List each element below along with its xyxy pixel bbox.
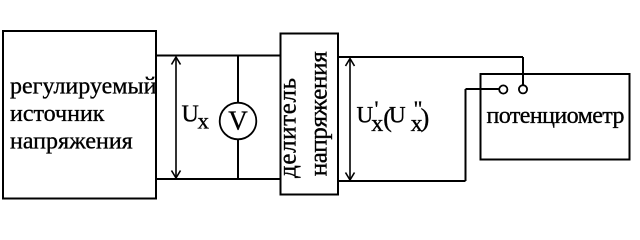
svg-text:регулируемый: регулируемый: [10, 73, 157, 99]
wire: bottom right section: [339, 180, 466, 182]
voltmeter circle: [220, 103, 257, 140]
svg-text:делитель: делитель: [275, 78, 302, 178]
wire: voltmeter top lead: [237, 57, 239, 104]
wire: top right section: [339, 56, 524, 58]
wire: to terminal 1: [466, 88, 500, 90]
svg-text:потенциометр: потенциометр: [487, 103, 625, 129]
arrow: U'x span double arrow: [346, 59, 355, 181]
wire: riser: [465, 89, 467, 181]
wire: voltmeter bottom lead: [237, 139, 239, 180]
label: U'x(U''x): [357, 96, 430, 137]
block: regulated voltage source box: [3, 31, 156, 199]
wire: bottom left section: [156, 178, 281, 180]
wire: top left section: [156, 55, 281, 57]
svg-text:напряжения: напряжения: [10, 129, 133, 155]
svg-text:источник: источник: [10, 101, 105, 127]
arrow: Ux span double arrow: [172, 57, 181, 178]
block: voltage divider box: [281, 34, 339, 195]
svg-text:напряжения: напряжения: [306, 51, 333, 177]
svg-text:U: U: [182, 102, 199, 128]
terminal circle 1: [499, 85, 507, 93]
svg-text:): ): [421, 104, 430, 133]
svg-text:V: V: [228, 106, 248, 136]
svg-text:U: U: [389, 102, 406, 127]
wire: drop to terminal 2: [522, 57, 524, 86]
block: potentiometer box: [481, 74, 630, 160]
svg-text:x: x: [198, 109, 210, 134]
terminal circle 2: [519, 85, 527, 93]
svg-text:x: x: [371, 111, 383, 137]
